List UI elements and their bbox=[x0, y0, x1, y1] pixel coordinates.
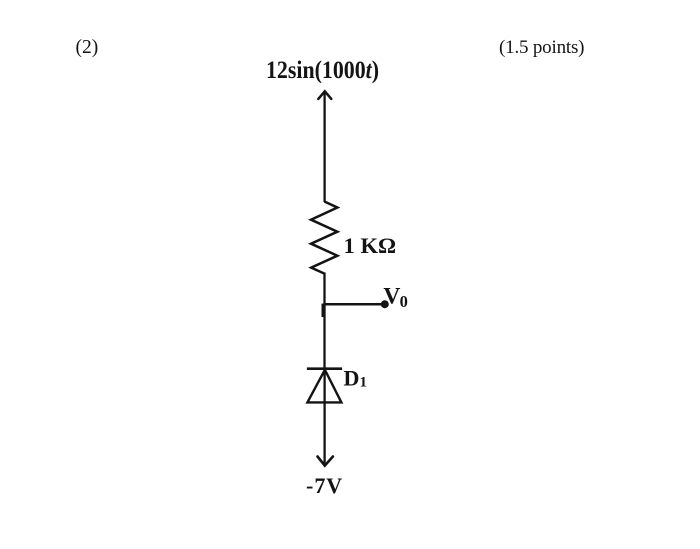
label (2) bbox=[76, 37, 99, 58]
label (1.5 points) bbox=[499, 37, 585, 58]
svg-text:(2): (2) bbox=[76, 37, 99, 58]
wire resistor to diode bbox=[323, 273, 325, 370]
node label V0 bbox=[383, 284, 407, 311]
node dot V0 bbox=[381, 300, 389, 308]
svg-text:V: V bbox=[383, 284, 400, 310]
label D1 bbox=[344, 366, 368, 391]
wire to node V0 bbox=[323, 303, 382, 306]
svg-text:(1.5 points): (1.5 points) bbox=[499, 37, 585, 58]
resistor 1 KΩ (zigzag) bbox=[311, 202, 337, 274]
source label 12sin(1000t) bbox=[266, 57, 379, 84]
top arrow head (source terminal) bbox=[318, 91, 331, 99]
supply label -7V bbox=[306, 473, 342, 498]
svg-text:1 KΩ: 1 KΩ bbox=[344, 233, 397, 258]
svg-text:0: 0 bbox=[400, 292, 408, 311]
svg-text:12sin(1000t): 12sin(1000t) bbox=[266, 57, 379, 84]
wire diode to bottom arrow bbox=[323, 370, 325, 465]
svg-text:1: 1 bbox=[360, 375, 368, 391]
value label 1 KΩ bbox=[344, 233, 397, 258]
svg-text:-7V: -7V bbox=[306, 473, 342, 498]
diode D1 cathode bar bbox=[307, 367, 342, 370]
wire source to resistor bbox=[323, 92, 325, 202]
bottom arrow (to -7V) bbox=[318, 457, 333, 466]
svg-text:D: D bbox=[344, 366, 360, 391]
wire junction overlap segment bbox=[322, 304, 324, 317]
diode D1 triangle bbox=[307, 370, 341, 403]
